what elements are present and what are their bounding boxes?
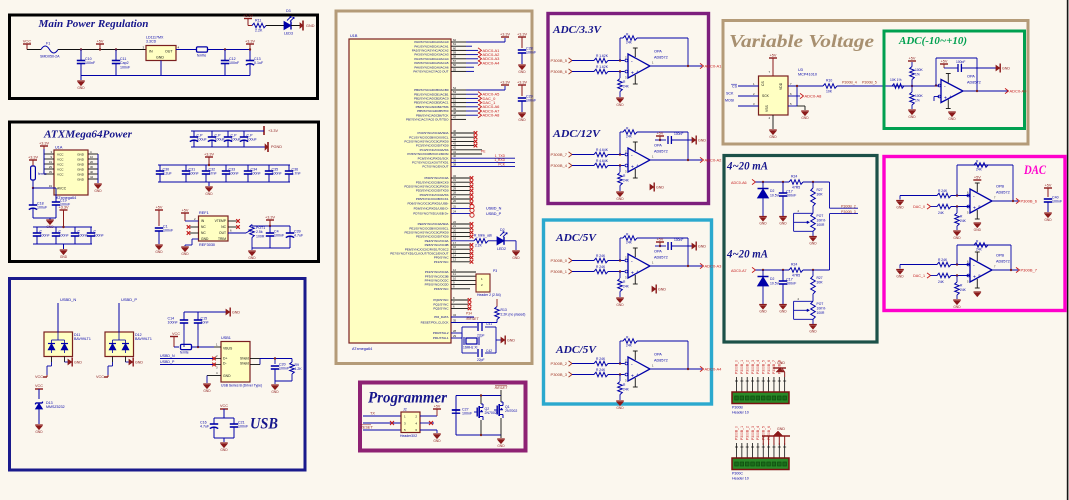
- power +5V: [96, 43, 104, 45]
- ground zener: [759, 304, 767, 306]
- svg-text:DAC: DAC: [1023, 163, 1046, 177]
- feedback resistor 24K: [623, 36, 637, 41]
- svg-text:P300B_5: P300B_5: [761, 360, 765, 374]
- svg-text:REF1: REF1: [199, 211, 209, 215]
- section frame Variable Voltage: [723, 21, 1028, 145]
- wire PA1 stub: [466, 45, 472, 47]
- svg-text:30R: 30R: [817, 193, 824, 197]
- svg-text:OPA: OPA: [654, 250, 662, 254]
- pin U1B PD5: [451, 198, 470, 200]
- wire VCC to ferrite: [174, 346, 179, 348]
- svg-text:MCP41010: MCP41010: [798, 73, 817, 77]
- pin U1B row G1: [451, 303, 468, 305]
- svg-text:U1B: U1B: [350, 34, 358, 38]
- wire analog caps bottom: [33, 217, 56, 219]
- ground portB cap: [518, 112, 526, 114]
- svg-text:BAV99LT1: BAV99LT1: [135, 337, 152, 341]
- svg-text:P300B_4: P300B_4: [756, 360, 760, 374]
- svg-text:OPB: OPB: [996, 254, 1004, 258]
- wire PA7 stub: [466, 70, 474, 72]
- svg-text:B: B: [979, 274, 981, 278]
- terminal pin wire col 7: [768, 377, 770, 392]
- reset driver rails: [456, 395, 501, 397]
- ground crystal: [501, 337, 505, 342]
- resistor R11 2.2K: [252, 23, 266, 28]
- svg-text:Main Power Regulation: Main Power Regulation: [37, 19, 148, 30]
- svg-text:13: 13: [453, 258, 457, 262]
- svg-text:GND: GND: [759, 222, 767, 226]
- svg-text:A: A: [637, 373, 639, 377]
- port ADC0-A8 wiper: [800, 93, 804, 98]
- svg-text:GND: GND: [518, 118, 526, 122]
- svg-text:+3.3V: +3.3V: [28, 155, 38, 159]
- svg-text:GND: GND: [77, 167, 85, 171]
- ground capacitor filter: [779, 216, 787, 218]
- wire REF3030 GND pin: [192, 238, 199, 240]
- svg-text:+3.3V: +3.3V: [268, 129, 278, 133]
- vertical bus right of U1A to ground: [97, 154, 99, 183]
- svg-text:USBD_N: USBD_N: [60, 297, 76, 302]
- svg-text:100nF: 100nF: [85, 61, 96, 65]
- svg-text:P300B_6: P300B_6: [1021, 198, 1038, 203]
- svg-text:+3.3V: +3.3V: [265, 215, 275, 219]
- svg-text:PA7/SYNC/AC7/AC0 OUT: PA7/SYNC/AC7/AC0 OUT: [413, 70, 448, 74]
- svg-text:PD7/SYNC/TXD1/USB D+: PD7/SYNC/TXD1/USB D+: [413, 212, 449, 216]
- svg-text:100nF: 100nF: [120, 65, 131, 69]
- pin U1B row F2: [451, 279, 476, 281]
- svg-text:4.7nF: 4.7nF: [292, 172, 302, 176]
- svg-text:100nF: 100nF: [251, 172, 262, 176]
- port P300B_6 dac: [1016, 198, 1020, 203]
- svg-text:24K: 24K: [623, 85, 630, 89]
- svg-text:2N7002: 2N7002: [485, 411, 497, 415]
- feedback loop wire: [619, 59, 621, 61]
- power +3.3V for LED: [244, 18, 252, 20]
- svg-text:A: A: [637, 164, 639, 168]
- svg-text:A: A: [637, 70, 639, 74]
- svg-text:LED2: LED2: [497, 247, 506, 251]
- wire to non-inverting input: [951, 275, 970, 277]
- svg-text:19: 19: [49, 184, 53, 188]
- pin U1B row E9: [451, 261, 470, 263]
- svg-text:GND: GND: [779, 310, 787, 314]
- pin U1B row E0: [451, 223, 470, 225]
- no ERC marker PC0: [474, 131, 478, 135]
- no-connect pins right REF3030: [228, 220, 237, 222]
- power +5V MCP41010: [769, 57, 777, 59]
- pin U1B PB4: [451, 106, 466, 108]
- svg-text:AD8572: AD8572: [996, 191, 1010, 195]
- capacitor filter 100nF: [782, 182, 784, 193]
- svg-text:R 1.62K: R 1.62K: [596, 65, 609, 69]
- resistor R9 1.2K shield: [291, 359, 293, 363]
- svg-text:24K: 24K: [938, 211, 945, 215]
- feedback wire to output: [637, 237, 688, 239]
- resistor to ground 24K: [619, 270, 621, 272]
- wire VCC to fuse: [27, 49, 41, 51]
- svg-text:30R: 30R: [817, 281, 824, 285]
- svg-text:+: +: [973, 205, 976, 211]
- no ERC marker PD2: [470, 185, 474, 189]
- svg-text:ADC0-A4: ADC0-A4: [705, 366, 723, 371]
- capacitor bypass 100nF opamp U5: [660, 139, 666, 141]
- svg-text:R24: R24: [791, 175, 797, 179]
- wire wiper pin 6 to port: [788, 95, 800, 97]
- svg-text:Header 10: Header 10: [732, 411, 749, 415]
- pin stubs TVS D11: [51, 357, 53, 363]
- terminal pin wire col 2: [741, 377, 743, 392]
- resistor input 24K lower: [937, 273, 951, 278]
- ground opamp dac negative: [974, 222, 982, 224]
- ground capacitor filter: [779, 304, 787, 306]
- wire programmer right row1: [420, 415, 437, 417]
- wire 4-20mA main: [756, 269, 790, 271]
- capacitor bypass 100nF opamp U6: [660, 245, 666, 247]
- svg-text:AD8572: AD8572: [967, 81, 981, 85]
- wire U1A GND pin row 4: [88, 168, 98, 170]
- svg-text:100nF: 100nF: [1052, 200, 1063, 204]
- ground trim pot: [812, 231, 814, 236]
- output wire green: [963, 90, 1008, 92]
- svg-text:25: 25: [453, 204, 457, 208]
- resistor input 1 24K: [594, 361, 608, 366]
- svg-text:GND: GND: [497, 444, 505, 448]
- svg-text:D-: D-: [223, 362, 227, 366]
- ground decoupling row: [208, 182, 210, 186]
- ground usb bypass: [223, 438, 225, 442]
- svg-text:R 24K: R 24K: [938, 189, 948, 193]
- pin U1B row E3: [451, 236, 470, 238]
- svg-text:VCC: VCC: [57, 167, 64, 171]
- svg-text:10nF: 10nF: [201, 321, 210, 325]
- svg-text:10: 10: [90, 155, 94, 159]
- wire input 1 P300B_0: [572, 260, 594, 262]
- bottom return wire: [81, 75, 250, 77]
- zener diode D13 protection: [36, 402, 43, 404]
- svg-text:AVCC: AVCC: [57, 186, 67, 190]
- section frame Programmer: [360, 383, 526, 451]
- svg-text:OPB: OPB: [996, 185, 1004, 189]
- power PGND bulk row: [267, 142, 269, 152]
- svg-text:PF1/SYNC: PF1/SYNC: [434, 260, 450, 264]
- svg-text:R27: R27: [817, 276, 823, 280]
- capacitor C28 100nF: [74, 227, 76, 233]
- wire regulator output: [176, 49, 196, 51]
- wire programmer row3: [363, 429, 401, 431]
- wire R11 to LED D3: [266, 25, 284, 27]
- svg-text:4~20 mA: 4~20 mA: [726, 161, 768, 173]
- svg-text:29: 29: [453, 334, 457, 338]
- feedback resistor 24K dac: [974, 163, 988, 168]
- svg-text:GND: GND: [77, 86, 85, 90]
- section frame Main Power Regulation: [10, 15, 318, 99]
- svg-text:MOSI: MOSI: [725, 99, 734, 103]
- wire to inverting input: [608, 60, 624, 62]
- svg-text:ADC0-A2: ADC0-A2: [705, 157, 723, 162]
- svg-text:+3.3V: +3.3V: [245, 39, 255, 43]
- svg-text:PCK: PCK: [498, 162, 506, 166]
- svg-text:ADC/5V: ADC/5V: [555, 232, 598, 244]
- svg-text:GND: GND: [616, 303, 624, 307]
- wire divider node: [904, 85, 938, 87]
- wire U1A GND pin row 5: [88, 173, 98, 175]
- svg-text:10K 1%: 10K 1%: [890, 78, 902, 82]
- terminal pin wire col 6: [762, 443, 764, 458]
- pin U1B PA7: [451, 70, 466, 72]
- ground below resistor: [616, 297, 624, 299]
- capacitor C18 100uF analog: [32, 188, 34, 205]
- no ERC marker row G2: [468, 307, 472, 311]
- resistor input 1 24K: [594, 258, 608, 263]
- svg-text:OPA: OPA: [654, 353, 662, 357]
- svg-text:P3: P3: [493, 269, 497, 273]
- no ERC marker PD6: [470, 201, 474, 205]
- svg-text:P300B_6: P300B_6: [767, 360, 771, 374]
- svg-text:PQ2/SYNC: PQ2/SYNC: [433, 307, 449, 311]
- svg-text:P300B_1: P300B_1: [551, 269, 568, 274]
- svg-text:VCC: VCC: [57, 157, 64, 161]
- no ERC marker programmer left: [390, 421, 394, 425]
- no ERC marker row E8: [470, 256, 474, 260]
- svg-text:NC: NC: [201, 231, 206, 235]
- terminal pin wire col 4: [752, 377, 754, 392]
- svg-text:24K: 24K: [938, 280, 945, 284]
- svg-text:C41: C41: [486, 322, 492, 326]
- wire to non-inverting input: [608, 71, 624, 73]
- svg-text:ATXMega64Power: ATXMega64Power: [43, 129, 133, 141]
- svg-text:GND: GND: [77, 162, 85, 166]
- svg-text:/RESET: /RESET: [465, 317, 480, 321]
- ferrite bead L1: [197, 47, 208, 52]
- svg-text:29: 29: [49, 165, 53, 169]
- svg-text:R_blink_usb: R_blink_usb: [474, 234, 492, 238]
- pin U1B PD3: [451, 190, 470, 192]
- svg-text:+5V: +5V: [770, 53, 777, 57]
- port P300B_2: [569, 361, 573, 366]
- ground dac bypass: [1044, 212, 1052, 214]
- wire U1A GND pin row 3: [88, 163, 98, 165]
- ground opamp U5 negative supply: [650, 184, 654, 189]
- svg-text:J2: J2: [403, 408, 407, 412]
- svg-text:P300C: P300C: [732, 472, 743, 476]
- feedback wire to output: [637, 37, 688, 39]
- svg-text:10K%: 10K%: [817, 219, 826, 223]
- svg-text:GND: GND: [77, 152, 85, 156]
- svg-text:GND: GND: [656, 185, 664, 189]
- svg-text:24K: 24K: [626, 343, 633, 347]
- svg-text:100nF: 100nF: [168, 321, 179, 325]
- wire to inverting input: [608, 260, 624, 262]
- wire fuse to regulator input: [58, 49, 146, 51]
- terminal pin wire col 7: [768, 443, 770, 458]
- capacitor C29 100nF portB: [518, 84, 526, 86]
- svg-text:GND: GND: [201, 237, 209, 241]
- pin U1B PA0: [451, 41, 466, 43]
- op-amp AD8572 dac: [970, 189, 992, 213]
- svg-text:+: +: [944, 95, 947, 101]
- capacitor C22 100uF: [193, 131, 195, 137]
- power +5V for C1: [155, 209, 163, 211]
- svg-text:P300B_4: P300B_4: [842, 81, 857, 85]
- svg-text:+: +: [631, 70, 634, 76]
- trim pot loop: [794, 212, 813, 214]
- port ADC0-A6: [466, 106, 478, 108]
- svg-text:GND: GND: [809, 330, 817, 334]
- svg-text:P300B_1: P300B_1: [740, 426, 744, 440]
- svg-text:4~20 mA: 4~20 mA: [726, 249, 768, 261]
- svg-text:GND: GND: [232, 310, 240, 314]
- port ADC0-A1: [700, 63, 704, 68]
- svg-text:GND: GND: [1044, 218, 1052, 222]
- svg-text:24K: 24K: [623, 388, 630, 392]
- wire U1A GND pin row 1: [88, 153, 98, 155]
- wire shield network bottom: [275, 380, 292, 382]
- feedback wire to output: [637, 340, 688, 342]
- power +5V opamp U5: [656, 135, 664, 137]
- vertical bus left of U1A: [43, 149, 45, 174]
- svg-text:GND: GND: [777, 361, 785, 365]
- svg-text:GND: GND: [801, 116, 809, 120]
- svg-text:RESET: RESET: [495, 386, 508, 390]
- svg-text:2.2K (no placed): 2.2K (no placed): [501, 313, 526, 317]
- svg-text:AD8572: AD8572: [654, 256, 668, 260]
- capacitor C10 100nF: [80, 50, 82, 61]
- svg-text:P300B_0: P300B_0: [551, 258, 568, 263]
- svg-text:GND: GND: [433, 439, 441, 443]
- ground zener: [759, 216, 767, 218]
- no ERC marker programmer right: [429, 421, 433, 425]
- section frame USB: [10, 279, 306, 471]
- no ERC marker PD3: [470, 189, 474, 193]
- wire LED to GND terminal: [291, 25, 303, 27]
- section frame ADC -10 to +10: [884, 31, 1025, 129]
- ground below resistor dac: [953, 299, 961, 301]
- svg-text:100nF: 100nF: [674, 238, 683, 242]
- output wire: [650, 265, 702, 267]
- svg-text:2.2K: 2.2K: [475, 244, 483, 248]
- ferrite bead analog supply: [31, 166, 36, 180]
- pin U1B PC7 wire: [451, 161, 515, 163]
- feedback wire to output: [637, 131, 688, 133]
- capacitor C28 100nF portA: [518, 36, 526, 38]
- terminal pin wire col 9: [778, 377, 780, 392]
- pin AVCC U1A: [38, 187, 54, 189]
- wire U1A GND pin row 6: [88, 178, 98, 180]
- svg-text:24K: 24K: [626, 240, 633, 244]
- svg-text:GND: GND: [77, 172, 85, 176]
- svg-text:100uF: 100uF: [197, 138, 208, 142]
- svg-text:100K: 100K: [915, 68, 924, 72]
- svg-text:VCC: VCC: [172, 332, 180, 336]
- port ADC0-A3: [700, 263, 704, 268]
- svg-text:+3.3V: +3.3V: [204, 152, 214, 156]
- wire programmer right row3: [420, 429, 437, 431]
- resistor input divider 10K: [892, 84, 904, 89]
- port ADC0-A9 output green: [1005, 88, 1009, 93]
- svg-text:100nF: 100nF: [526, 99, 537, 103]
- power +3.3V port A: [501, 36, 509, 38]
- svg-text:USB Series B (Driver Type): USB Series B (Driver Type): [221, 384, 262, 388]
- wire CS to pin 1: [738, 85, 759, 87]
- wire ferrite to +3.3V: [208, 49, 250, 51]
- svg-text:ferrite: ferrite: [180, 351, 189, 355]
- ground opamp green negative: [948, 111, 956, 113]
- svg-text:LED3: LED3: [284, 32, 293, 36]
- pin U1B row E5: [451, 244, 470, 246]
- svg-text:+5V: +5V: [909, 56, 916, 60]
- wire programmer right row2: [420, 422, 434, 424]
- ground trim pot: [812, 319, 814, 324]
- wire pin 7 PB0 net: [788, 85, 823, 87]
- capacitor C34 100nF: [247, 165, 249, 171]
- wire USBD_P net to TVS: [118, 303, 120, 332]
- pin U1B PD4: [451, 194, 470, 196]
- ferrite bead USB supply: [181, 344, 192, 349]
- svg-text:GND: GND: [248, 256, 256, 260]
- capacitor C30 2.2uF: [159, 165, 161, 171]
- power +3.3V decoupling row: [205, 156, 213, 158]
- resistor input 2 4.64K: [594, 163, 608, 168]
- no-connect pins left REF3030: [190, 226, 199, 228]
- capacitor C27 100nF reset: [452, 409, 460, 411]
- capacitor row bottom-left C26-C29: [33, 226, 92, 228]
- svg-text:GND: GND: [769, 135, 777, 139]
- svg-text:P300B_7: P300B_7: [1021, 267, 1038, 272]
- svg-text:Variable Voltage: Variable Voltage: [729, 31, 874, 51]
- wire to inverting input: [608, 154, 624, 156]
- svg-text:PE4/SYNC/OC0A: PE4/SYNC/OC0A: [425, 239, 449, 243]
- svg-text:P300B_3: P300B_3: [751, 426, 755, 440]
- svg-text:+: +: [973, 274, 976, 280]
- wire U1A VCC pin row 5: [44, 173, 54, 175]
- output wire dac: [992, 269, 1018, 271]
- capacitor C23 100uF: [211, 131, 213, 137]
- svg-text:A: A: [637, 270, 639, 274]
- svg-text:P300B_4: P300B_4: [551, 163, 568, 168]
- svg-text:GND: GND: [809, 242, 817, 246]
- feedback resistor 24K: [623, 130, 637, 135]
- svg-text:100R: 100R: [817, 223, 826, 227]
- port ADC0-A7: [466, 110, 478, 112]
- section frame 4-20mA: [724, 156, 877, 343]
- no ERC marker PD1: [470, 180, 474, 184]
- svg-text:IN: IN: [149, 50, 153, 54]
- svg-text:GND: GND: [616, 103, 624, 107]
- svg-text:PR1/XTAL1: PR1/XTAL1: [433, 336, 449, 340]
- svg-text:24K: 24K: [960, 288, 967, 292]
- svg-text:B: B: [979, 205, 981, 209]
- svg-text:Header 10: Header 10: [732, 477, 749, 481]
- feedback resistor 24K: [623, 236, 637, 241]
- pin U1B PC1: [451, 136, 474, 138]
- svg-text:VTEMP: VTEMP: [215, 219, 227, 223]
- svg-text:GND: GND: [74, 360, 82, 364]
- resistor divider upper 100K: [910, 67, 915, 80]
- terminal pin wire col 8: [773, 443, 775, 458]
- terminal pin wire col 4: [752, 443, 754, 458]
- port DAC_0: [466, 97, 478, 99]
- capacitor C16 4.7uF: [213, 418, 215, 424]
- feedback resistor 24K: [623, 339, 637, 344]
- pin U1B PC2: [451, 140, 474, 142]
- ground analog caps: [49, 218, 51, 220]
- svg-text:VCC: VCC: [35, 384, 43, 388]
- pin U1B row E2: [451, 231, 470, 233]
- ground below C10: [80, 72, 82, 80]
- resistor input 1 4.64K: [594, 152, 608, 157]
- pin U1B row F4: [451, 288, 470, 290]
- port ADC0_1: [466, 49, 478, 51]
